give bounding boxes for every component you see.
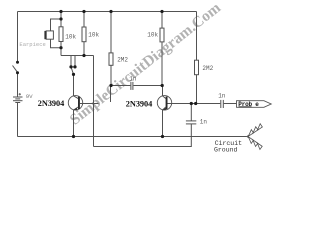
label R2 value 10k xyxy=(88,32,99,39)
label R3 value 2M2 xyxy=(117,57,128,64)
label probe text xyxy=(238,101,259,108)
svg-text:2M2: 2M2 xyxy=(117,57,128,64)
node switch bottom xyxy=(16,71,19,74)
probe flag xyxy=(237,101,272,108)
resistor R4 10k (Q2 collector load) xyxy=(160,12,164,86)
node collector branch right xyxy=(73,65,76,68)
node earpiece tap xyxy=(59,17,62,20)
wire left battery column top xyxy=(17,12,19,63)
node Q2 emitter ground xyxy=(161,135,164,138)
label 9V xyxy=(26,93,33,100)
wire interstage node to C1 xyxy=(111,85,130,87)
resistor R2 10k xyxy=(82,12,86,56)
wire switch to battery xyxy=(17,73,19,98)
wire earpiece bottom to node xyxy=(51,39,62,48)
transistor Q1 2N3904 xyxy=(68,96,82,111)
label circuit ground line1 xyxy=(215,140,242,147)
node interstage xyxy=(109,84,112,87)
wire earpiece/R1 drop from rail xyxy=(60,12,62,27)
wire Q1 emitter to ground xyxy=(73,110,75,137)
node switch top xyxy=(16,61,19,64)
svg-text:10k: 10k xyxy=(65,34,76,41)
resistor R5 2M2 (Q2 bias) xyxy=(195,12,199,104)
wire R1 bottom xyxy=(60,42,62,56)
label Q2 2N3904 xyxy=(126,100,152,109)
resistor R3 2M2 (Q1 bias) xyxy=(109,12,113,86)
label C2 value 1n xyxy=(200,119,208,126)
wire bottom ground rail xyxy=(18,136,247,138)
transistor Q2 2N3904 xyxy=(157,96,171,111)
capacitor C1 1n (interstage) xyxy=(131,82,133,90)
resistor R1 10k xyxy=(59,27,63,42)
svg-text:1n: 1n xyxy=(129,76,137,83)
wire C1 to Q2 collector node xyxy=(133,85,162,87)
node Q2 base R5 xyxy=(194,102,197,105)
capacitor C2 1n (feedback, vertical) xyxy=(186,104,196,124)
wire branch to Q1 collector xyxy=(71,56,75,96)
svg-text:2N3904: 2N3904 xyxy=(126,100,152,109)
wire Q2 base lead xyxy=(168,103,221,105)
svg-text:10k: 10k xyxy=(147,32,158,39)
watermark SimpleCircuitDiagram.Com xyxy=(67,0,224,129)
svg-text:2M2: 2M2 xyxy=(202,65,213,72)
label circuit ground line2 xyxy=(214,146,238,153)
svg-text:10k: 10k xyxy=(88,32,99,39)
switch S1 xyxy=(13,66,18,73)
wire C3 to probe flag xyxy=(224,103,237,105)
label R4 value 10k xyxy=(147,32,158,39)
wire Q2 collector xyxy=(162,86,164,96)
svg-text:2N3904: 2N3904 xyxy=(38,99,64,108)
wire collector bus xyxy=(61,55,94,57)
node collector stem xyxy=(72,73,75,76)
label Earpiece xyxy=(19,41,45,48)
label R5 value 2M2 xyxy=(202,65,213,72)
node earpiece bottom xyxy=(59,46,62,49)
wire Q1 base lead xyxy=(80,103,99,105)
wire R3 node stub toward Q1 base xyxy=(110,86,112,103)
node rail-R3 xyxy=(109,10,112,13)
wire earpiece tap xyxy=(51,19,62,31)
capacitor C3 1n (probe coupling) xyxy=(221,100,224,108)
node rail-R2 xyxy=(82,10,85,13)
svg-text:Ground: Ground xyxy=(214,146,238,153)
svg-text:1n: 1n xyxy=(218,93,226,100)
svg-text:Earpiece: Earpiece xyxy=(19,41,45,48)
label C3 value 1n xyxy=(218,93,226,100)
label R1 value 10k xyxy=(65,34,76,41)
wire top supply rail xyxy=(18,11,197,13)
node collector branch left xyxy=(69,65,72,68)
label Q1 2N3904 xyxy=(38,99,64,108)
svg-text:9V: 9V xyxy=(26,93,33,100)
ground arrow pointer xyxy=(245,124,263,150)
wire Q2 emitter to ground xyxy=(162,110,164,137)
node rail-R1 xyxy=(59,10,62,13)
wire bus corner down to feedback loop xyxy=(93,56,95,147)
node Q2 collector xyxy=(161,84,164,87)
node Q1 emitter ground xyxy=(72,135,75,138)
node rail-R4 xyxy=(160,10,163,13)
svg-text:1n: 1n xyxy=(200,119,208,126)
earpiece LS1 xyxy=(44,31,53,39)
node bus-R2 xyxy=(82,54,85,57)
node Q2 base C2 xyxy=(190,102,193,105)
battery B1 9V xyxy=(13,93,23,103)
label C1 value 1n xyxy=(129,76,137,83)
wire feedback loop bottom xyxy=(94,124,192,147)
wire battery minus to bottom rail xyxy=(17,103,19,137)
